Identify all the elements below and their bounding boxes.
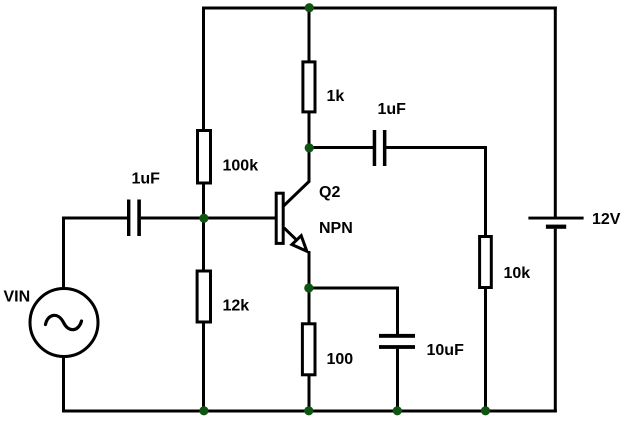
source VIN circle [30,289,98,357]
wire 1k bottom to collector [308,112,311,183]
svg-text:12V: 12V [592,211,621,228]
resistor 1k [303,62,315,112]
node base junction [199,214,208,223]
capacitor C1 1uF input right plate [137,200,141,237]
wire emitter node to bypass cap [309,288,398,335]
wire 10k bottom to ground rail [484,287,487,411]
resistor 100 [302,324,315,375]
battery V1 negative plate [546,225,566,229]
transistor Q2 emitter arrowhead [292,236,307,252]
node ground at 10uF [393,406,402,415]
wire output cap to 10k [386,148,485,237]
svg-text:VIN: VIN [4,289,31,306]
wire emitter down to 100 [308,251,311,324]
resistor 12k [197,271,210,322]
wire VIN bottom to ground rail [62,356,65,410]
wire top rail to 1k [308,8,311,62]
capacitor C3 10uF top plate [379,334,415,338]
capacitor C3 10uF bottom plate [379,345,415,349]
transistor Q2 base bar [276,193,283,243]
node collector junction [305,143,314,152]
svg-text:12k: 12k [223,298,250,315]
wire 100 bottom to ground rail [308,375,311,411]
capacitor C2 1uF output left plate [373,130,377,166]
svg-text:NPN: NPN [319,220,353,237]
wire 10uF bottom to ground rail [396,349,399,411]
wire 12k bottom to ground rail [202,322,205,411]
resistor 100k [198,131,211,184]
wire top rail [202,7,557,10]
wire bottom ground rail [62,410,557,413]
svg-text:10uF: 10uF [427,342,465,359]
svg-text:Q2: Q2 [319,184,340,201]
transistor Q2 emitter lead [284,228,298,241]
wire collector node to output cap [309,146,373,149]
node top rail collector branch [305,3,314,12]
node emitter junction [304,283,313,292]
capacitor C2 1uF output right plate [383,130,387,166]
wire base node down to 12k [202,218,205,271]
wire battery to ground rail [554,229,557,413]
wire right vertical from top rail to battery [554,7,557,218]
wire input cap to transistor base [141,217,276,220]
svg-text:10k: 10k [504,265,531,282]
svg-text:1uF: 1uF [132,171,161,188]
capacitor C1 1uF input left plate [127,200,130,237]
battery V1 positive plate [528,217,583,220]
transistor Q2 collector lead [283,181,310,207]
svg-text:1k: 1k [327,88,345,105]
wire left vertical from top rail to R 100k [202,7,205,131]
wire 100k bottom to base node [202,183,205,219]
svg-text:100: 100 [327,351,354,368]
svg-text:100k: 100k [223,158,259,175]
node ground at 10k [481,406,490,415]
resistor 10k [480,237,492,288]
node ground at 12k [199,406,208,415]
wire VIN top to input cap [64,218,128,287]
svg-text:1uF: 1uF [378,101,407,118]
node ground at 100 [304,406,313,415]
